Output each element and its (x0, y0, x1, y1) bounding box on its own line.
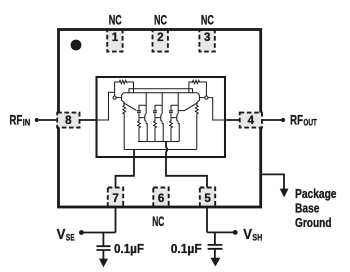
collector rail upper (129, 89, 193, 93)
node B output base circle (205, 96, 208, 99)
pin 2 number (157, 31, 163, 44)
collector rail lower (123, 92, 197, 94)
Vse label (57, 226, 75, 243)
svg-text:Package: Package (295, 187, 337, 201)
pin 5 lead box (200, 188, 215, 208)
amplifier die box (97, 77, 226, 157)
pin 4 lead box (240, 113, 262, 128)
capacitor C1 0.1uF (96, 233, 110, 260)
pin 2 lead box (153, 30, 168, 52)
wire package base ground branch (261, 174, 284, 189)
svg-text:3: 3 (204, 31, 211, 44)
svg-text:4: 4 (248, 114, 255, 127)
pin-1 marker dot (71, 40, 82, 51)
svg-text:NC: NC (154, 12, 167, 27)
transistor Q2 cell (137, 93, 147, 142)
svg-text:IN: IN (23, 118, 31, 129)
svg-text:0.1µF: 0.1µF (114, 242, 144, 256)
svg-text:6: 6 (158, 192, 165, 205)
svg-text:NC: NC (152, 214, 164, 229)
resistor R4 (154, 118, 157, 142)
emitter bus (138, 141, 179, 143)
ground (left) (99, 259, 108, 268)
wire Vsh (207, 231, 233, 233)
svg-text:RF: RF (290, 111, 303, 127)
pin 8 number (65, 114, 72, 127)
resistor R7 (output emitter bias) (195, 103, 198, 149)
pin 3 lead box (199, 30, 214, 52)
ground arrow (package base) (280, 189, 289, 198)
node A input base circle (113, 96, 116, 99)
pin 7 lead box (108, 188, 123, 208)
ground (right) (210, 258, 220, 267)
svg-text:OUT: OUT (303, 118, 317, 129)
wire RFin to pin 8 (39, 119, 97, 121)
Vse node dot (79, 230, 84, 235)
svg-text:SE: SE (66, 232, 75, 243)
svg-text:V: V (243, 226, 252, 243)
wire base bus diagonal right (178, 104, 196, 111)
pin 4 number (248, 114, 255, 127)
pin lead boxes (under package outline) (107, 30, 215, 207)
RFin label (9, 111, 30, 128)
bias bus (124, 149, 197, 151)
RFout label (290, 111, 317, 128)
Vsh label (243, 226, 262, 243)
pin 1 number (112, 31, 119, 44)
capacitor C2 0.1uF (208, 232, 223, 258)
svg-text:RF: RF (9, 111, 22, 127)
resistor R2 (input emitter bias) (123, 103, 126, 149)
package outline (59, 30, 261, 208)
svg-text:Ground: Ground (295, 216, 332, 230)
wire input riser (97, 92, 115, 120)
pin 5 number (204, 192, 211, 205)
svg-text:NC: NC (109, 12, 122, 27)
resistor R6 feedback (top-right loop) (189, 80, 207, 96)
svg-text:NC: NC (201, 12, 214, 27)
wire base feed diagonal left (125, 104, 137, 111)
RFout node dot (281, 118, 285, 122)
resistor R5 (170, 118, 173, 142)
wire to pin 5 (hop over bias bus) (166, 142, 207, 233)
svg-text:V: V (57, 226, 66, 243)
wire to pin 7 (116, 150, 135, 233)
svg-text:0.1µF: 0.1µF (171, 242, 202, 256)
pin 6 lead box (153, 188, 168, 208)
RFin node dot (35, 118, 39, 122)
transistor Q1 (116, 93, 124, 103)
resistor R1 feedback (top-left loop) (115, 80, 134, 96)
svg-text:5: 5 (204, 192, 211, 205)
pin 6 number (158, 192, 165, 205)
resistor R3 (138, 118, 141, 142)
wire output (208, 98, 225, 120)
transistor Q3 cell (153, 93, 163, 142)
svg-text:8: 8 (65, 114, 72, 127)
svg-text:Base: Base (295, 201, 320, 215)
transistor Q5 (196, 93, 204, 103)
package base ground label (295, 187, 337, 230)
svg-text:SH: SH (252, 232, 262, 243)
wire Vse (84, 232, 116, 234)
wire pin 4 to RFout (225, 119, 281, 121)
svg-text:2: 2 (157, 31, 163, 44)
pin 1 lead box (107, 30, 122, 52)
pin 7 number (112, 192, 118, 205)
pin 3 number (204, 31, 211, 44)
pin 8 lead box (57, 113, 79, 128)
Vsh node dot (233, 230, 238, 235)
transistor Q4 cell (169, 93, 179, 142)
svg-text:1: 1 (112, 31, 119, 44)
svg-text:7: 7 (112, 192, 118, 205)
